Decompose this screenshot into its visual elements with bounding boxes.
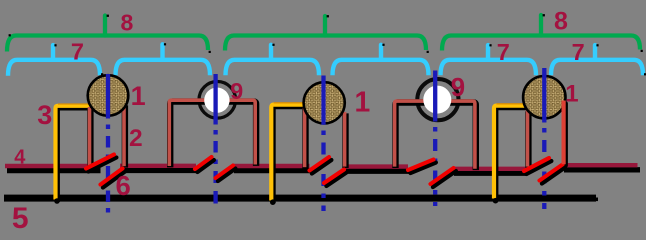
brick thread shadows — [90, 102, 528, 171]
svg-text:1: 1 — [565, 80, 578, 107]
svg-text:5: 5 — [12, 202, 29, 231]
needle axis unit 2 — [213, 74, 217, 204]
brace 8 group-3 (green) — [442, 36, 640, 51]
svg-text:8: 8 — [121, 10, 134, 36]
line 4 segment d — [343, 164, 408, 168]
brace 7 E tick — [486, 45, 490, 60]
brace 7 E (cyan) — [441, 60, 537, 76]
brace 7 C (cyan) — [226, 60, 320, 76]
svg-text:2: 2 — [129, 125, 143, 152]
brace 7 F (cyan) — [551, 60, 643, 76]
svg-text:8: 8 — [554, 7, 568, 35]
binder (unit 5 upper diagonal) — [524, 158, 549, 171]
yellow thread (unit 5) — [494, 106, 528, 199]
svg-text:7: 7 — [497, 39, 510, 65]
spool 1 (unit 5, hatched) — [523, 76, 565, 118]
brace 7 B (cyan) — [116, 60, 211, 76]
yellow thread 3 shadows — [58, 107, 530, 203]
roller 9 (unit 2 white) — [204, 88, 229, 113]
line 4 segment b — [120, 164, 196, 168]
svg-text:7: 7 — [71, 38, 84, 64]
binder (unit 3 lower diagonal) — [324, 170, 344, 184]
warp thread (unit 5 left vertical) — [526, 110, 530, 167]
line 4 shadow segments — [7, 170, 640, 173]
yellow thread 3 (unit 1) — [56, 106, 91, 200]
needle axis unit 4 — [433, 71, 437, 207]
line 4 segment f — [562, 163, 638, 167]
yellow thread (unit 3) — [271, 105, 304, 201]
binder 6 (unit 1 lower diagonal) — [101, 169, 123, 185]
shadow dots on braces — [9, 14, 646, 75]
brace 7 D tick — [379, 45, 383, 60]
roller 9 (unit 4 white) — [423, 86, 451, 114]
svg-text:7: 7 — [572, 39, 585, 65]
brace 7 A (cyan) — [8, 60, 100, 76]
line 5 (black ground line) — [4, 195, 596, 202]
brace 7 C tick — [269, 45, 273, 60]
svg-text:9: 9 — [230, 78, 243, 104]
brace 8 group-3 tick — [539, 15, 543, 36]
binder (unit 4 lower diagonal) — [431, 168, 454, 184]
brace 8 group-2 tick — [323, 16, 327, 36]
svg-text:3: 3 — [37, 100, 52, 130]
line 4 segment e — [452, 167, 525, 171]
line 4 segment a — [5, 164, 98, 168]
brace 8 group-2 (green) — [225, 36, 426, 51]
brace 7 B tick — [160, 44, 164, 60]
needle axis unit 1 (blue) — [106, 74, 110, 213]
binder 6 shadows — [88, 104, 565, 188]
spool 1 (unit 3, hatched) — [304, 82, 345, 123]
svg-text:6: 6 — [116, 170, 131, 201]
brace 7 D (cyan) — [333, 60, 429, 76]
ring 9 (unit 2 outer) — [199, 82, 236, 119]
needle axis unit 5 — [542, 68, 546, 209]
binder (unit 5 lower diagonal) — [540, 165, 563, 181]
svg-text:4: 4 — [14, 147, 26, 169]
binder (unit 3 upper diagonal) — [310, 157, 330, 171]
warp thread (unit 3 left vertical) — [303, 108, 307, 168]
warp thread 2 (unit 1 left vertical) — [88, 107, 92, 168]
binder (unit 2 upper diagonal) — [195, 157, 212, 169]
ring 9 (unit 4 outer) — [417, 79, 458, 120]
binder 6 (unit 1 upper diagonal) — [86, 155, 114, 169]
brace 8 group-1 (green) — [7, 36, 208, 52]
warp thread 2 (unit 1 right vertical) — [122, 104, 126, 166]
svg-text:9: 9 — [451, 74, 465, 102]
yellow thread top highlights — [58, 103, 528, 104]
brace 7 F tick — [593, 45, 597, 60]
line 4 segment c — [232, 164, 310, 168]
svg-text:1: 1 — [131, 81, 146, 111]
binder (unit 5 right vertical red) — [561, 101, 565, 165]
warp thread (unit 3 right vertical) — [343, 112, 347, 167]
binder (unit 2 lower diagonal) — [216, 166, 234, 179]
yellow thread end blobs — [54, 198, 60, 204]
brace 7 A tick — [51, 45, 55, 60]
svg-text:1: 1 — [355, 86, 371, 118]
brace 8 group-1 tick — [103, 16, 107, 36]
warp thread (unit 4 over ring) — [395, 101, 475, 169]
needle axis unit 3 — [321, 76, 325, 212]
spool 1 (unit 1, hatched) — [88, 75, 129, 116]
warp thread (unit 2 over ring) — [169, 100, 255, 166]
binder (unit 4 upper diagonal) — [408, 160, 434, 171]
